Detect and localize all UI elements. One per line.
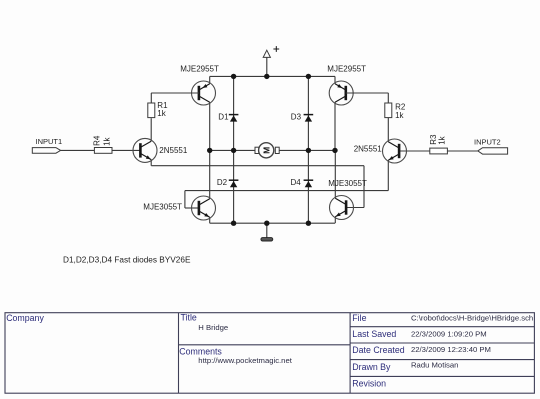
- svg-text:Radu Motisan: Radu Motisan: [411, 361, 458, 370]
- svg-text:File: File: [352, 313, 366, 323]
- svg-text:2N5551: 2N5551: [354, 145, 383, 154]
- svg-text:22/3/2009 12:23:40 PM: 22/3/2009 12:23:40 PM: [411, 345, 491, 354]
- svg-text:D2: D2: [217, 178, 228, 187]
- svg-text:INPUT1: INPUT1: [36, 137, 63, 146]
- svg-text:http://www.pocketmagic.net: http://www.pocketmagic.net: [198, 356, 292, 365]
- svg-text:1k: 1k: [103, 136, 112, 145]
- svg-text:Company: Company: [6, 313, 44, 323]
- svg-text:Date Created: Date Created: [352, 345, 404, 355]
- svg-text:Drawn By: Drawn By: [352, 362, 391, 372]
- svg-text:1k: 1k: [157, 109, 166, 118]
- svg-text:INPUT2: INPUT2: [474, 138, 501, 147]
- svg-text:1k: 1k: [395, 111, 404, 120]
- svg-text:M: M: [261, 147, 271, 154]
- svg-text:D3: D3: [291, 112, 302, 121]
- svg-text:H Bridge: H Bridge: [198, 323, 228, 332]
- svg-text:D1: D1: [218, 112, 229, 121]
- svg-text:D1,D2,D3,D4 Fast diodes BYV26E: D1,D2,D3,D4 Fast diodes BYV26E: [63, 256, 191, 265]
- svg-text:2N5551: 2N5551: [159, 146, 188, 155]
- svg-text:Title: Title: [181, 313, 197, 323]
- svg-text:1k: 1k: [438, 135, 447, 144]
- svg-text:22/3/2009 1:09:20 PM: 22/3/2009 1:09:20 PM: [411, 330, 487, 339]
- svg-text:R4: R4: [92, 135, 101, 146]
- svg-text:MJE2955T: MJE2955T: [180, 65, 219, 74]
- svg-text:MJE2955T: MJE2955T: [327, 65, 366, 74]
- svg-text:C:\robot\docs\H-Bridge\HBridge: C:\robot\docs\H-Bridge\HBridge.sch: [411, 314, 533, 323]
- svg-text:MJE3055T: MJE3055T: [328, 179, 367, 188]
- svg-text:D4: D4: [291, 178, 302, 187]
- svg-text:R3: R3: [429, 134, 438, 145]
- svg-text:Revision: Revision: [352, 378, 386, 388]
- svg-text:MJE3055T: MJE3055T: [143, 202, 182, 211]
- svg-text:Comments: Comments: [179, 347, 222, 357]
- svg-text:Last Saved: Last Saved: [352, 329, 396, 339]
